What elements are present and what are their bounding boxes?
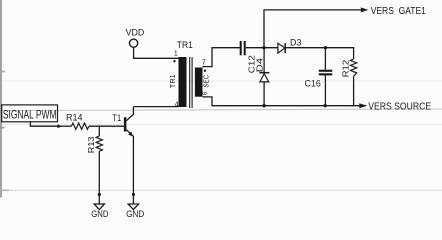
svg-text:VERS SOURCE: VERS SOURCE: [368, 102, 431, 113]
svg-text:SIGNAL PWM: SIGNAL PWM: [3, 107, 57, 121]
ground T1 dot: [132, 193, 135, 196]
svg-text:R14: R14: [66, 113, 83, 123]
ground T1 symbol: [128, 204, 138, 210]
wire D4 to bottom rail: [263, 82, 265, 106]
wire T1 emitter to ground: [132, 136, 134, 204]
resistor R13 zigzag: [96, 136, 102, 151]
wire C16 to bottom rail: [324, 75, 326, 105]
svg-text:6: 6: [202, 92, 208, 95]
wire VDD to TR1 pin 1: [134, 47, 179, 58]
resistor R13 top lead: [98, 126, 100, 136]
emitter arrow: [128, 131, 133, 136]
node junction dot D4/bottom: [262, 104, 265, 107]
svg-text:D3: D3: [290, 38, 302, 48]
svg-text:C16: C16: [305, 78, 321, 88]
scan line faint y124: [0, 123, 442, 125]
wire junction down to C16: [324, 48, 326, 70]
transformer TR1 primary winding: [179, 57, 187, 107]
scan line faint y81: [0, 80, 442, 82]
edge mark y127: [0, 127, 5, 129]
edge mark y71: [0, 71, 5, 73]
node junction dot D4/top: [262, 46, 265, 49]
edge mark y190: [0, 189, 9, 191]
bottom rail wire: [211, 105, 366, 107]
VDD terminal circle: [130, 39, 138, 47]
wire R14 to T1 base: [89, 125, 124, 127]
node junction dot C16/bottom: [324, 104, 327, 107]
svg-text:GND: GND: [91, 209, 108, 217]
ground R13 symbol: [94, 204, 104, 210]
transformer TR1 secondary winding: [195, 68, 203, 97]
svg-text:TR1: TR1: [170, 74, 177, 88]
mid rail wire segment 2: [246, 47, 279, 49]
resistor R12 top lead: [353, 47, 355, 59]
signal arrow: [57, 124, 62, 128]
resistor R14 zigzag: [71, 123, 89, 129]
SIGNAL PWM box: [2, 105, 58, 122]
scan line faint y190: [0, 189, 442, 191]
svg-text:TR1: TR1: [177, 40, 193, 50]
svg-text:R13: R13: [86, 136, 96, 153]
capacitor C12 plates: [240, 41, 246, 55]
svg-text:VERS GATE1: VERS GATE1: [371, 6, 427, 17]
transistor T1 emitter: [126, 130, 133, 136]
transformer core lines: [190, 57, 192, 108]
wire arrow to R14: [60, 125, 71, 127]
transistor T1 collector: [126, 107, 133, 121]
wire pin 6 to bottom rail: [203, 97, 213, 106]
ground R13 dot: [98, 193, 101, 196]
transistor T1 base bar: [124, 117, 127, 131]
svg-text:7: 7: [202, 60, 206, 67]
svg-text:1: 1: [174, 50, 178, 57]
resistor R12 zigzag: [350, 59, 356, 76]
diode D3: [278, 43, 285, 53]
svg-text:D4: D4: [254, 58, 264, 73]
mid rail wire segment 3: [285, 47, 354, 49]
svg-text:R12: R12: [340, 60, 350, 78]
wire junction up to VERS GATE1: [264, 10, 361, 48]
svg-text:VDD: VDD: [126, 28, 145, 38]
wire T1 collector to TR1 pin 4: [133, 106, 178, 108]
primary polarity dot: [173, 60, 175, 62]
scan line faint y110: [0, 109, 442, 111]
diode D4: [259, 73, 269, 82]
secondary polarity dot: [204, 70, 206, 72]
wire pin 7 to top rail: [203, 48, 213, 67]
node junction dot C16/top: [324, 46, 327, 49]
page border left: [0, 0, 2, 198]
capacitor C16 plates: [319, 70, 333, 76]
svg-text:SEC: SEC: [203, 75, 210, 88]
wire junction down to D4: [263, 48, 265, 73]
mid rail wire segment 1: [211, 47, 240, 49]
wire from SIGNAL PWM box: [30, 122, 58, 126]
VERS GATE1 arrow: [361, 7, 369, 12]
resistor R12 bottom lead: [353, 76, 355, 106]
svg-text:T1: T1: [112, 113, 121, 123]
VERS SOURCE arrow: [359, 103, 367, 108]
svg-text:GND: GND: [126, 209, 144, 217]
resistor R13 bottom lead: [98, 151, 100, 204]
